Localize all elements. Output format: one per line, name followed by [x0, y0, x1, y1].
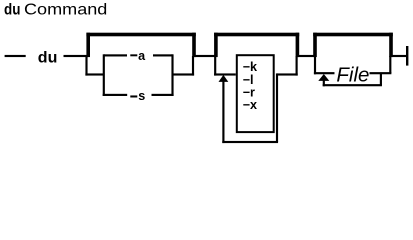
svg-text:s: s: [138, 89, 145, 103]
svg-text:−x: −x: [243, 98, 257, 112]
wire: group1 bypass top bar (thick): [86, 33, 195, 37]
wire: group1 exit stub: [173, 73, 195, 75]
svg-text:Command: Command: [24, 0, 107, 18]
option -s label: [130, 95, 137, 97]
wire: rail du to group1: [64, 55, 89, 57]
wire: rail group1 to group2: [194, 55, 216, 57]
wire: -s branch left segment: [103, 94, 127, 96]
svg-text:File: File: [336, 63, 369, 86]
wire: group3 repeat bottom loop: [323, 84, 382, 86]
wire: group1 bypass left vertical (thick): [86, 33, 90, 57]
wire: group2 exit stub: [277, 73, 298, 75]
wire: rail group2 to group3: [297, 55, 315, 57]
wire: group1 entry drop: [85, 56, 87, 76]
wire: group3 repeat stem: [323, 80, 325, 86]
repeat arrowhead group2: [219, 75, 229, 82]
wire: group2 bypass right vertical (thick): [296, 33, 300, 57]
wire: group2 bypass top bar (thick): [214, 33, 299, 37]
wire: -s branch right segment: [152, 94, 174, 96]
wire: File branch right segment: [370, 72, 392, 74]
wire: -a branch right segment: [153, 54, 173, 56]
svg-text:du: du: [38, 50, 58, 67]
wire: group2 repeat stem: [222, 81, 224, 143]
wire: group1 merge vertical: [171, 54, 173, 96]
wire: group2 entry stub: [214, 73, 236, 75]
wire: -a branch left segment: [104, 54, 127, 56]
wire: group1 entry stub: [85, 73, 103, 75]
wire: leading rail dash: [5, 55, 26, 57]
wire: group3 bypass left vertical (thick): [313, 33, 317, 57]
wire: group1 bypass right vertical (thick): [192, 33, 196, 57]
option -a label: [130, 54, 137, 56]
wire: group3 entry drop: [314, 56, 316, 74]
wire: group2 entry drop: [214, 56, 216, 76]
wire: group3 bypass top bar (thick): [313, 33, 393, 37]
wire: rail to terminator: [391, 55, 407, 57]
repeat arrowhead group3: [318, 74, 329, 81]
svg-text:du: du: [4, 1, 20, 18]
wire: group2 bypass left vertical (thick): [214, 33, 218, 57]
terminator end bar: [406, 46, 408, 66]
wire: group2 exit riser: [296, 56, 298, 76]
wire: group2 repeat bottom loop: [222, 141, 278, 143]
wire: group3 bypass right vertical (thick): [389, 33, 393, 57]
wire: group1 exit riser: [192, 56, 194, 76]
svg-text:a: a: [138, 49, 146, 63]
wire: group3 repeat right vertical: [380, 73, 382, 85]
wire: File branch left segment: [314, 72, 335, 74]
option choice box group2: [237, 55, 274, 132]
wire: group3 exit riser: [389, 56, 391, 73]
wire: group1 fork vertical: [103, 54, 105, 96]
wire: group2 repeat right vertical: [276, 73, 278, 142]
